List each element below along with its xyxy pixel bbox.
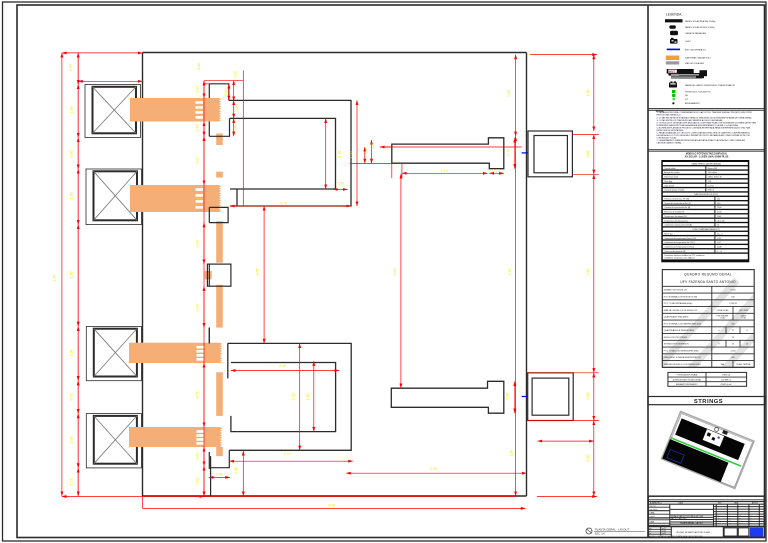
- dim: corridor vertical long: [203, 81, 205, 496]
- svg-text:PLANTA GERAL - LAYOUT: PLANTA GERAL - LAYOUT: [595, 528, 629, 532]
- svg-text:Coeficiente de temperatura Voc: Coeficiente de temperatura Voc (%/C): [664, 241, 695, 244]
- legend item 12 green small: [672, 98, 675, 101]
- orange vertical strip segments: [216, 134, 223, 146]
- dim: box R2 right 0.86: [528, 372, 599, 374]
- legend item 8 inverter cluster: [667, 69, 694, 74]
- crossed box 2 inner crossed square: [94, 171, 138, 220]
- svg-text:jan/22: jan/22: [661, 530, 666, 532]
- svg-text:jan/22: jan/22: [661, 533, 666, 535]
- svg-text:0.86: 0.86: [586, 151, 590, 158]
- svg-text:1.00: 1.00: [69, 350, 73, 357]
- svg-text:QUADRO RESUMO GERAL: QUADRO RESUMO GERAL: [684, 272, 732, 276]
- svg-text:0.40: 0.40: [196, 125, 200, 132]
- svg-text:1.02: 1.02: [234, 467, 238, 474]
- title block top strip: [648, 499, 764, 501]
- svg-text:xxx: xxx: [750, 523, 753, 525]
- svg-text:Caixa de juncao / Diodos: Caixa de juncao / Diodos: [664, 190, 684, 192]
- svg-text:ALVARA PROJ.: ALVARA PROJ.: [650, 502, 662, 505]
- svg-text:3.139,20: 3.139,20: [729, 303, 738, 305]
- svg-text:0.40: 0.40: [233, 125, 237, 132]
- svg-text:0.70: 0.70: [506, 149, 510, 156]
- svg-text:1.80: 1.80: [586, 455, 590, 462]
- svg-text:Tensao max. do sistema (V): Tensao max. do sistema (V): [664, 215, 687, 218]
- room B left wall: [228, 343, 237, 431]
- svg-text:0.46: 0.46: [216, 473, 222, 477]
- building outer wall top edge: [143, 52, 527, 54]
- svg-text:Tolerancia de potencia (W): Tolerancia de potencia (W): [664, 250, 686, 253]
- corridor bottom end box: [211, 450, 230, 496]
- svg-text:144 celulas: 144 celulas: [708, 172, 717, 174]
- room B outer wall: [228, 343, 351, 450]
- room A inner left jog: [236, 189, 238, 206]
- svg-text:0.62: 0.62: [197, 63, 201, 70]
- svg-text:0.87: 0.87: [196, 304, 200, 311]
- svg-text:INTERFERIR NA ESTRUTURA DA: INTERFERIR NA ESTRUTURA DA BANDEJA EM AT…: [657, 124, 739, 127]
- svg-text:4,32 MW CC: 4,32 MW CC: [721, 379, 732, 381]
- svg-text:0.60: 0.60: [69, 64, 73, 71]
- svg-text:xx: xx: [718, 518, 720, 520]
- legend item 13 black dot: [672, 102, 674, 104]
- svg-text:CANTEIRO ANEXO GERAL.: CANTEIRO ANEXO GERAL.: [657, 142, 683, 145]
- dim: vertical x243: [242, 71, 244, 207]
- corridor wall vertical: [208, 84, 210, 98]
- svg-text:2.15: 2.15: [441, 169, 448, 173]
- building bottom edge: [143, 495, 527, 497]
- svg-text:HABITACAO / ABRIGO INVERSORES: HABITACAO / ABRIGO INVERSORES E TRANSFOR…: [685, 84, 735, 87]
- svg-text:1.85: 1.85: [507, 90, 511, 97]
- beam B (bottom): [391, 381, 504, 413]
- svg-text:POT. TOTAL INSTALADA (kWp): POT. TOTAL INSTALADA (kWp): [664, 302, 693, 305]
- dim: vertical 3.05 mid: [263, 206, 265, 343]
- crossed box 1 inner crossed square: [93, 87, 137, 134]
- dim: room B verticals: [299, 343, 301, 450]
- svg-text:Tipo de celula: Tipo de celula: [664, 168, 675, 170]
- title block bottom divider: [648, 525, 764, 527]
- svg-text:1.00: 1.00: [69, 437, 73, 444]
- svg-text:xx: xx: [750, 518, 752, 520]
- svg-text:POT. NOMINAL DOS MODULOS (W): POT. NOMINAL DOS MODULOS (W): [664, 295, 698, 298]
- svg-text:1.55: 1.55: [306, 394, 310, 401]
- notes box divider: [648, 109, 765, 111]
- stamp box 1: [724, 528, 737, 536]
- svg-text:DATA:: DATA:: [650, 521, 655, 524]
- svg-text:xx: xx: [739, 518, 741, 520]
- orange bar 2: [130, 185, 219, 212]
- svg-text:1.00: 1.00: [69, 193, 73, 200]
- svg-text:APROV: APROV: [752, 502, 759, 505]
- dim: corridor top small: [204, 83, 209, 85]
- svg-text:1.80: 1.80: [509, 450, 513, 456]
- title block frame: [648, 496, 764, 537]
- svg-text:25: 25: [717, 225, 719, 227]
- svg-text:NOCT (C): NOCT (C): [664, 233, 672, 235]
- crossed box 3 outer: [86, 326, 141, 380]
- svg-text:1.00: 1.00: [69, 107, 73, 114]
- svg-text:PAINEL SOLAR BIFACIAL 550Wp: PAINEL SOLAR BIFACIAL 550Wp: [685, 20, 716, 23]
- lower panel band: [662, 439, 728, 482]
- room A outer wall: [229, 100, 351, 206]
- dim: vertical x515.6 chain: [515, 55, 517, 137]
- small top arrows: [714, 427, 719, 432]
- legend item 2 rounded: [669, 25, 675, 28]
- building left wall: [142, 53, 144, 497]
- right box R1 outer: [528, 131, 572, 177]
- svg-text:2384 x 1096 x 35: 2384 x 1096 x 35: [708, 177, 722, 179]
- corridor small box below bar2: [209, 207, 228, 222]
- svg-text:MARCA E MODELO DOS INVERSORES: MARCA E MODELO DOS INVERSORES: [664, 363, 701, 366]
- svg-text:2.520: 2.520: [730, 350, 736, 352]
- svg-text:8.50: 8.50: [329, 504, 336, 508]
- spec table frame: [661, 160, 749, 262]
- svg-text:1.38: 1.38: [338, 151, 342, 158]
- svg-text:3.70: 3.70: [280, 202, 287, 206]
- svg-text:ATERRAMENTO: ATERRAMENTO: [685, 102, 701, 105]
- right box R1 inner: [534, 136, 567, 173]
- svg-text:Potencia nominal max. Pm (W): Potencia nominal max. Pm (W): [664, 197, 689, 200]
- svg-text:xxx: xxx: [761, 521, 764, 523]
- svg-text:CAIXA DE PASSAGEM: CAIXA DE PASSAGEM: [685, 32, 706, 35]
- dim: beam A chain: [402, 172, 488, 174]
- svg-text:INVT: INVT: [669, 69, 676, 73]
- svg-text:EIXO VIA TERREA 6mt: EIXO VIA TERREA 6mt: [685, 48, 706, 51]
- svg-text:xx: xx: [729, 518, 731, 520]
- svg-text:188: 188: [197, 434, 201, 439]
- svg-text:xx: xx: [715, 518, 717, 520]
- dim: top right 1.90: [530, 54, 597, 56]
- svg-text:Vidro frontal: Vidro frontal: [664, 184, 674, 187]
- svg-text:LNVU 550W: LNVU 550W: [739, 310, 749, 312]
- svg-text:MARCA / MODELO DOS MODULOS: MARCA / MODELO DOS MODULOS: [664, 309, 698, 312]
- svg-text:Coeficiente maximo por fusivel: Coeficiente maximo por fusivel (A): [664, 224, 692, 227]
- svg-text:POT. NOMINAL DOS INVERSORES (k: POT. NOMINAL DOS INVERSORES (kW): [664, 322, 702, 325]
- dim: box R1 right 0.86: [572, 134, 598, 136]
- corridor top room stub: [209, 84, 229, 101]
- svg-text:0.50: 0.50: [506, 393, 510, 400]
- svg-text:3.00: 3.00: [430, 467, 437, 471]
- legend item 1 solid bar: [665, 19, 683, 22]
- legend item 9 battery: [669, 83, 677, 88]
- crossed box 2 outer: [86, 169, 142, 225]
- orange bar 1: [130, 98, 219, 122]
- dim: left boxes vertical chain: [77, 53, 79, 496]
- svg-text:AREA APROVEITAMENTO: AREA APROVEITAMENTO: [676, 383, 698, 386]
- svg-text:0.86: 0.86: [586, 393, 590, 400]
- upper panel band: [675, 418, 745, 460]
- svg-text:550: 550: [717, 198, 720, 200]
- dim: left outer vertical: [61, 53, 63, 496]
- title block middle cell rows: [713, 504, 715, 526]
- svg-text:STRINGS POR INVERSOR: STRINGS POR INVERSOR: [664, 344, 689, 346]
- svg-text:AX SOLAR - LUXEN LNVU 550W P: AX SOLAR - LUXEN LNVU 550W PLUS: [685, 156, 729, 159]
- blue stake outline: [667, 449, 684, 463]
- svg-text:-0,27: -0,27: [717, 242, 721, 244]
- svg-text:32,6: 32,6: [708, 181, 712, 183]
- svg-text:-0,35: -0,35: [717, 238, 721, 240]
- svg-text:Corrente de curto-circuito Isc: Corrente de curto-circuito Isc (A): [664, 206, 690, 209]
- blue connector R2: [522, 396, 528, 398]
- svg-text:NUMERO DE MODULOS: NUMERO DE MODULOS: [664, 290, 688, 292]
- crossed box 4 outer: [86, 414, 141, 468]
- svg-text:188: 188: [197, 196, 201, 201]
- svg-text:1.02: 1.02: [234, 71, 238, 78]
- svg-text:0.40: 0.40: [371, 143, 375, 149]
- dim: room B bottom 2.70: [229, 460, 353, 462]
- svg-text:0.40: 0.40: [235, 105, 239, 112]
- svg-text:3. COTAS ENTRE OS TRACKERS: 3. COTAS ENTRE OS TRACKERS SAO SEMPRE AO…: [657, 119, 724, 122]
- svg-text:COEF. TEMPERATURA (NOCT): COEF. TEMPERATURA (NOCT): [692, 228, 720, 231]
- room A inner wall: [230, 118, 336, 189]
- blue revision cell: [750, 527, 763, 536]
- legend item 3 rounded: [670, 31, 678, 35]
- dim: beam B right 0.50: [514, 381, 516, 413]
- small summary table: [668, 372, 747, 386]
- right box R2 outer: [528, 373, 574, 421]
- svg-text:ACRESCENTADO NO ANO ATUAL: ACRESCENTADO NO ANO ATUAL: [673, 378, 701, 381]
- svg-text:Eficiencia do modulo (%): Eficiencia do modulo (%): [664, 212, 684, 214]
- svg-text:Temperatura de operacao (C): Temperatura de operacao (C): [664, 219, 688, 222]
- svg-text:Coeficiente de temperatura Pma: Coeficiente de temperatura Pmax (%/C): [664, 237, 696, 240]
- orange bar 4: [129, 427, 220, 447]
- dim: room A right small dims: [350, 162, 392, 164]
- svg-text:45 +- 2: 45 +- 2: [717, 233, 723, 235]
- red verticals small plan marks: [242, 451, 244, 496]
- svg-text:0.72: 0.72: [69, 479, 73, 486]
- svg-text:4.35: 4.35: [508, 269, 512, 276]
- svg-text:188: 188: [197, 350, 201, 355]
- svg-text:PAINEL SOLAR MONOF. 450Wp: PAINEL SOLAR MONOF. 450Wp: [685, 26, 715, 29]
- svg-text:0.62: 0.62: [69, 394, 73, 401]
- title block left column: [669, 504, 671, 526]
- svg-text:SUNNY CENTRAL: SUNNY CENTRAL: [736, 363, 750, 366]
- svg-text:MODULOS POR STRING: MODULOS POR STRING: [664, 337, 688, 339]
- dim: room A right vertical 1.55: [356, 100, 358, 206]
- room B inner wall: [231, 363, 336, 432]
- svg-text:0.67: 0.67: [196, 157, 200, 164]
- dim: vertical x400.9: [400, 174, 402, 388]
- svg-text:xxx: xxx: [761, 523, 764, 525]
- svg-text:CANTEIRAS / MESAS SOLO: CANTEIRAS / MESAS SOLO: [685, 57, 712, 60]
- svg-text:0.62: 0.62: [196, 478, 200, 485]
- svg-text:2,0 mm: 2,0 mm: [708, 185, 714, 187]
- svg-text:1.90: 1.90: [586, 90, 590, 97]
- svg-text:DADOS ELETRICOS (STC): DADOS ELETRICOS (STC): [694, 193, 718, 196]
- crossed box 1 outer: [85, 85, 141, 138]
- svg-text:3 MW CA: 3 MW CA: [722, 374, 730, 377]
- svg-text:xxx: xxx: [750, 521, 753, 523]
- dim: long horizontal mid y147: [380, 146, 522, 148]
- svg-text:xx: xx: [718, 516, 720, 518]
- legend item 6 orange swatch: [666, 56, 679, 61]
- svg-text:1500: 1500: [717, 216, 721, 218]
- corridor stub above room B: [208, 328, 210, 344]
- svg-text:0.60: 0.60: [196, 453, 200, 460]
- svg-text:xxx: xxx: [739, 523, 742, 525]
- dim: top horizontal 0.60: [62, 52, 143, 54]
- title block right grid: [715, 504, 717, 526]
- legend item 11 green blob: [672, 94, 676, 98]
- svg-text:xx: xx: [750, 516, 752, 518]
- svg-text:4.60: 4.60: [586, 269, 590, 276]
- crossed box 4 inner crossed square: [94, 416, 137, 464]
- svg-text:0,048: 0,048: [717, 247, 722, 249]
- legend item 7 gray swatch: [666, 61, 679, 64]
- svg-text:Tensao de circuito aberto Voc: Tensao de circuito aberto Voc (V): [664, 202, 691, 205]
- svg-text:xx: xx: [761, 518, 763, 520]
- svg-text:14,00: 14,00: [717, 207, 722, 209]
- right panel divider: [647, 5, 649, 538]
- dim: beam A right 0.70: [514, 138, 516, 169]
- svg-text:5.00: 5.00: [393, 269, 397, 276]
- dim: vertical 1.80 bottom right: [593, 421, 595, 497]
- dim: room A inner vertical: [325, 118, 327, 189]
- beam A (top): [392, 138, 504, 169]
- svg-text:Coeficiente de temperatura Isc: Coeficiente de temperatura Isc (%/C): [664, 246, 694, 249]
- svg-text:21,26: 21,26: [717, 212, 722, 214]
- title block header dense row: [648, 501, 764, 503]
- dim: above box1 horizontal: [78, 80, 142, 82]
- quadro resumo table: [662, 270, 754, 368]
- svg-text:PLANTA GERAL - LAYOUT: PLANTA GERAL - LAYOUT: [680, 522, 704, 525]
- dim: bottom 3.00: [346, 472, 526, 474]
- svg-text:FREQUENC. E SAIDA INVERSORES (: FREQUENC. E SAIDA INVERSORES (V): [664, 356, 701, 359]
- svg-text:0.35: 0.35: [493, 168, 500, 172]
- svg-text:2.35: 2.35: [292, 394, 296, 401]
- svg-text:QUANTIDADE DE INVERSORES: QUANTIDADE DE INVERSORES: [664, 329, 695, 332]
- svg-text:STRING BOX / DISJUNTOR: STRING BOX / DISJUNTOR: [685, 91, 711, 93]
- dim: bottom edge dims: [62, 496, 204, 498]
- svg-text:43.087,00 m2: 43.087,00 m2: [721, 384, 732, 386]
- svg-text:Dimensoes (mm): Dimensoes (mm): [664, 177, 678, 179]
- svg-text:LEGENDA:: LEGENDA:: [666, 13, 682, 17]
- svg-text:xxx: xxx: [718, 523, 721, 525]
- dim: bottom 8.50: [203, 490, 205, 496]
- dim: bottom 8.50: [143, 507, 526, 509]
- svg-text:ESTACOES DE MONTAGEM;: ESTACOES DE MONTAGEM;: [657, 129, 684, 132]
- svg-text:OBRA:: OBRA:: [650, 512, 656, 515]
- blue connector R1: [522, 152, 528, 154]
- svg-text:QUANTIDADE TRACKERS: QUANTIDADE TRACKERS: [664, 316, 689, 319]
- bottom-left mini grid: [660, 526, 662, 535]
- svg-text:crea/uf: crea/uf: [650, 516, 655, 518]
- svg-text:xxx: xxx: [718, 521, 721, 523]
- svg-text:UFV FAZENDA SANTO ANTONIO: UFV FAZENDA SANTO ANTONIO: [680, 280, 736, 284]
- svg-text:0.96: 0.96: [69, 151, 73, 158]
- dim: room A left 0.40 chain: [228, 84, 230, 101]
- svg-text:xx: xx: [761, 516, 763, 518]
- svg-text:-40 a +85: -40 a +85: [717, 220, 725, 222]
- svg-text:QGBT: QGBT: [685, 41, 691, 43]
- legend item 10 green square: [672, 90, 675, 93]
- inverter white notch: [703, 429, 724, 447]
- dim: vertical 4.60: [593, 174, 595, 372]
- svg-text:0.96: 0.96: [364, 148, 368, 154]
- svg-text:xxx: xxx: [739, 521, 742, 523]
- dim: room A bottom 3.70: [230, 205, 351, 207]
- dim: room B top 2.40: [231, 370, 339, 372]
- svg-text:xx: xx: [715, 516, 717, 518]
- svg-text:0.40: 0.40: [224, 89, 228, 96]
- svg-text:ESC: 1/4: ESC: 1/4: [595, 532, 605, 535]
- svg-text:Peso (kg): Peso (kg): [664, 181, 672, 183]
- corridor equipment box mid: [207, 264, 231, 286]
- orange tab left of corridor box: [205, 271, 212, 279]
- svg-text:xx: xx: [729, 516, 731, 518]
- svg-text:0 ~ +5: 0 ~ +5: [717, 251, 722, 253]
- svg-text:2.70: 2.70: [284, 452, 291, 456]
- svg-text:VIAS DE RODAGEM: VIAS DE RODAGEM: [685, 62, 704, 65]
- svg-text:xxx: xxx: [729, 521, 732, 523]
- svg-text:1000W/m2, temperatura 25C, AM=: 1000W/m2, temperatura 25C, AM=1,5: [664, 256, 694, 259]
- svg-text:xxx: xxx: [729, 523, 732, 525]
- green string line: [671, 438, 741, 466]
- svg-text:jan/22: jan/22: [661, 528, 666, 530]
- building right wall outer: [526, 53, 528, 497]
- svg-text:0.87: 0.87: [196, 240, 200, 247]
- svg-text:49,9: 49,9: [717, 203, 721, 205]
- svg-text:3.05: 3.05: [256, 269, 260, 276]
- svg-text:188: 188: [197, 107, 201, 112]
- svg-text:POTENCIA SUPORTADA: POTENCIA SUPORTADA: [677, 374, 698, 377]
- svg-text:1.50: 1.50: [53, 275, 57, 282]
- svg-text:CARACTERISTICAS MECANICAS: CARACTERISTICAS MECANICAS: [691, 163, 721, 166]
- svg-text:IP68 / 3: IP68 / 3: [708, 190, 714, 192]
- strings header band: [648, 397, 765, 405]
- crossed box 3 inner crossed square: [94, 329, 137, 377]
- svg-text:Arranjo das celulas: Arranjo das celulas: [664, 171, 679, 174]
- svg-text:1.90: 1.90: [69, 272, 73, 279]
- legend box divider: [648, 108, 765, 110]
- svg-text:LUXEN SOLAR: LUXEN SOLAR: [716, 309, 729, 312]
- svg-text:0.30: 0.30: [338, 182, 344, 186]
- legend item 4 pump icon: [670, 39, 678, 44]
- svg-text:0.40: 0.40: [196, 86, 200, 93]
- svg-text:27 (B): 27 (B): [741, 318, 746, 320]
- svg-text:1.55: 1.55: [349, 152, 353, 159]
- svg-text:5.760: 5.760: [730, 290, 736, 292]
- right box R2 inner: [532, 378, 569, 415]
- stamp box 2: [738, 528, 749, 536]
- strings picture frame rotated: [662, 412, 754, 489]
- svg-text:POT. TOTAL DOS INVERSORES (kW): POT. TOTAL DOS INVERSORES (kW): [664, 349, 699, 352]
- svg-text:Mono c/185: Mono c/185: [708, 168, 717, 170]
- view title circle: [586, 528, 592, 534]
- svg-text:FAZ. STO ANTONIO: FAZ. STO ANTONIO: [671, 517, 687, 520]
- svg-text:2.40: 2.40: [279, 364, 286, 368]
- svg-text:STRINGS: STRINGS: [694, 399, 723, 405]
- svg-text:xx: xx: [739, 516, 741, 518]
- orange bar 3: [129, 343, 220, 363]
- svg-text:0.75: 0.75: [196, 392, 200, 399]
- legend item 5 blue line: [667, 48, 680, 50]
- svg-text:UFV FAZ. DE SANTO ANTONIO 3,0M: UFV FAZ. DE SANTO ANTONIO 3,0MW: [676, 531, 710, 534]
